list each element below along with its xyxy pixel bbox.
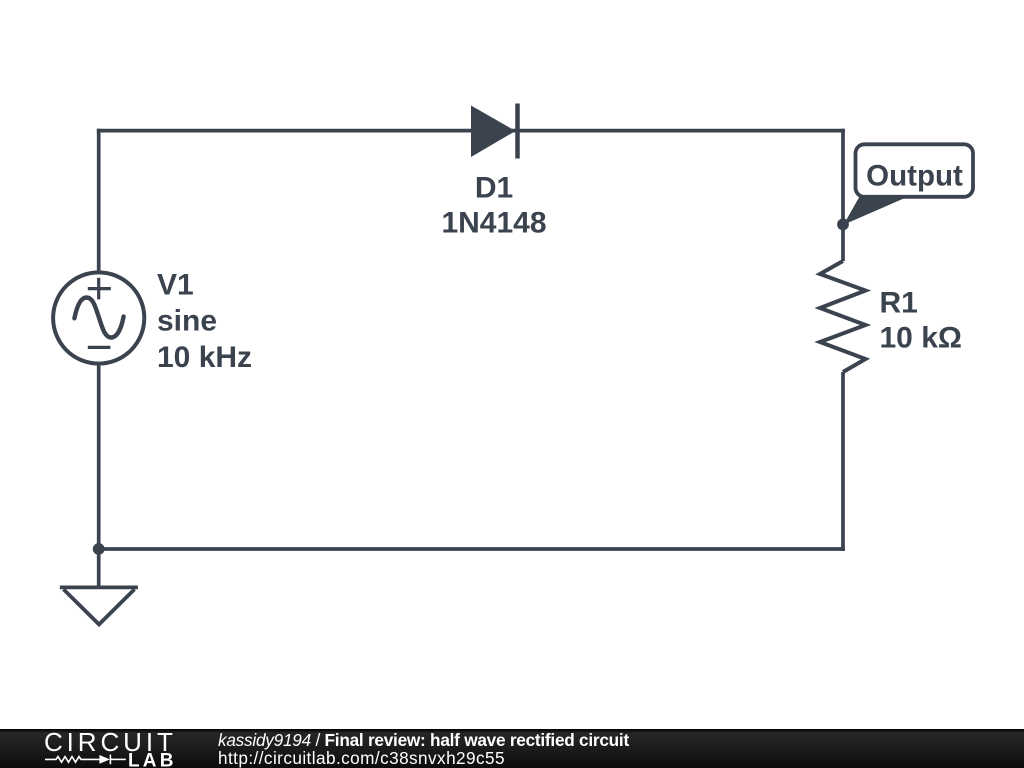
svg-text:D1: D1 [475,171,513,204]
voltage source V1 plus sign [88,278,111,300]
wire: stub from bottom-left node to ground [97,549,101,586]
wire: top horizontal rail through diode D1 [97,129,845,133]
voltage source V1 sine symbol [74,298,123,338]
voltage source V1 body circle [53,272,144,363]
svg-text:LAB: LAB [128,751,177,768]
label V1 name and values [157,268,252,374]
svg-text:V1: V1 [157,268,194,301]
node flag Output: rounded box [856,144,974,197]
svg-text:R1: R1 [880,286,918,319]
wire: left vertical from V1 + terminal up to top rail [97,129,101,271]
svg-text:10 kHz: 10 kHz [157,341,252,374]
logo resistor squiggle + diode [45,755,126,765]
svg-text:10 kΩ: 10 kΩ [880,321,962,354]
node dot: bottom-left junction [93,543,105,555]
ground symbol [60,587,138,624]
svg-text:Output: Output [866,159,963,192]
CircuitLab logo [0,729,200,768]
diode D1 anode triangle [471,106,516,158]
footer title text [218,731,629,768]
voltage source V1 minus sign [88,346,111,349]
diode D1 cathode bar [515,104,520,159]
label D1 name and part number [441,171,546,239]
svg-text:1N4148: 1N4148 [441,206,546,239]
resistor R1 zigzag [820,261,866,372]
wire: right vertical from R1 bottom to bottom rail [841,372,845,551]
svg-text:sine: sine [157,305,217,338]
wire: right vertical from top rail through Output node to R1 top [841,129,845,261]
wire: bottom horizontal rail [97,547,845,551]
wire: left vertical from V1 - terminal to bottom-left node [97,366,101,550]
label R1 name and value [880,286,962,354]
footer bar [0,729,1024,768]
node flag Output: tail pointer [844,198,907,225]
node dot: Output node junction [837,219,849,231]
